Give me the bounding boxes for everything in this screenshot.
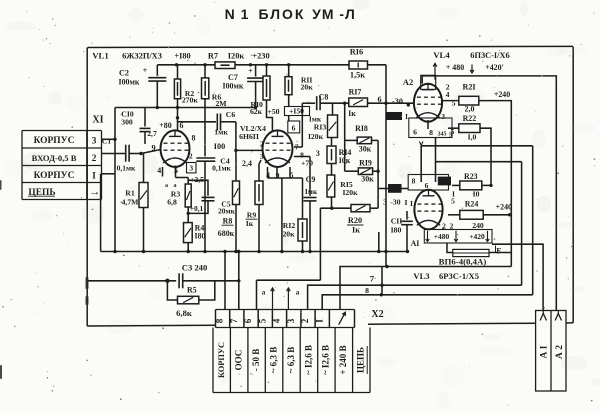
svg-text:4: 4 xyxy=(446,90,450,99)
svg-text:I00: I00 xyxy=(214,142,225,151)
svg-text:2: 2 xyxy=(260,140,264,149)
svg-text:20к: 20к xyxy=(301,83,314,92)
svg-text:а: а xyxy=(173,183,176,189)
svg-text:6,8: 6,8 xyxy=(167,198,177,207)
svg-text:ВП6-4(0,4А): ВП6-4(0,4А) xyxy=(439,257,487,267)
svg-text:БЛОК: БЛОК xyxy=(259,6,306,22)
svg-text:~ 6,3 В: ~ 6,3 В xyxy=(268,347,278,373)
svg-text:3: 3 xyxy=(92,136,97,146)
svg-text:+420': +420' xyxy=(485,63,504,72)
svg-text:I80: I80 xyxy=(391,226,402,235)
svg-text:~ 6,3 В: ~ 6,3 В xyxy=(286,347,296,373)
svg-text:СII: СII xyxy=(391,217,403,226)
svg-text:R24: R24 xyxy=(465,200,479,209)
svg-text:+ 240 В: + 240 В xyxy=(338,345,348,374)
svg-text:С8: С8 xyxy=(319,93,329,102)
svg-text:5: 5 xyxy=(451,128,455,136)
svg-text:А I: А I xyxy=(540,345,550,358)
svg-text:300: 300 xyxy=(121,118,133,127)
svg-text:I: I xyxy=(314,319,324,323)
svg-text:2,4: 2,4 xyxy=(242,159,252,168)
svg-text:7: 7 xyxy=(370,274,375,284)
svg-text:ЦЕПЬ: ЦЕПЬ xyxy=(356,347,366,373)
svg-text:I20к: I20к xyxy=(308,132,324,141)
svg-text:~ I2,6 В: ~ I2,6 В xyxy=(303,345,313,375)
svg-text:6: 6 xyxy=(180,121,184,130)
svg-text:240: 240 xyxy=(472,221,484,230)
svg-text:N 1: N 1 xyxy=(225,6,250,22)
svg-text:3: 3 xyxy=(286,318,296,323)
svg-text:+80: +80 xyxy=(159,121,171,130)
svg-text:I: I xyxy=(405,198,408,207)
svg-text:VL1: VL1 xyxy=(92,51,109,61)
svg-text:I,0: I,0 xyxy=(468,133,477,142)
svg-text:+480: +480 xyxy=(434,232,450,241)
svg-text:+: + xyxy=(248,67,253,76)
svg-text:5: 5 xyxy=(257,318,267,323)
svg-text:+: + xyxy=(143,66,148,75)
svg-text:RI6: RI6 xyxy=(350,48,363,57)
svg-text:62к: 62к xyxy=(250,107,263,116)
svg-text:I: I xyxy=(405,113,408,121)
svg-text:Iк: Iк xyxy=(348,109,356,118)
svg-text:RI8: RI8 xyxy=(355,124,368,133)
svg-text:30к: 30к xyxy=(361,175,374,184)
svg-text:6: 6 xyxy=(243,318,253,323)
svg-text:8: 8 xyxy=(429,128,433,137)
svg-text:1,5к: 1,5к xyxy=(350,71,365,80)
svg-text:I20к: I20к xyxy=(228,52,245,61)
svg-text:а: а xyxy=(165,183,168,189)
svg-text:+2,5: +2,5 xyxy=(190,175,204,184)
svg-text:С2: С2 xyxy=(119,69,129,78)
svg-text:R23: R23 xyxy=(464,172,478,181)
svg-text:680к: 680к xyxy=(218,229,235,238)
svg-text:I80: I80 xyxy=(195,232,206,241)
svg-text:а: а xyxy=(296,289,300,297)
svg-text:270к: 270к xyxy=(182,96,199,105)
svg-text:Iк: Iк xyxy=(246,219,254,228)
svg-text:ХI: ХI xyxy=(92,115,103,126)
svg-text:3: 3 xyxy=(260,152,264,161)
svg-text:8: 8 xyxy=(215,318,225,323)
svg-text:6: 6 xyxy=(292,123,296,132)
svg-text:I00мк: I00мк xyxy=(119,78,140,87)
svg-text:6Н6П: 6Н6П xyxy=(239,132,259,141)
svg-text:5: 5 xyxy=(451,197,455,206)
svg-text:КОРПУС: КОРПУС xyxy=(34,171,75,181)
svg-text:2М: 2М xyxy=(215,99,227,108)
svg-text:3: 3 xyxy=(316,149,320,158)
svg-text:6П3С-I/Х6: 6П3С-I/Х6 xyxy=(470,51,509,60)
svg-text:RI3: RI3 xyxy=(314,123,327,132)
svg-text:30к: 30к xyxy=(359,145,372,154)
svg-text:RI7: RI7 xyxy=(349,88,362,97)
svg-text:2,7: 2,7 xyxy=(147,129,157,138)
svg-text:УМ -Л: УМ -Л xyxy=(312,6,356,22)
svg-text:6: 6 xyxy=(413,128,417,137)
svg-text:-30: -30 xyxy=(390,198,400,207)
svg-text:20мк: 20мк xyxy=(218,207,236,216)
svg-text:8: 8 xyxy=(412,177,416,186)
svg-text:8: 8 xyxy=(365,286,369,295)
svg-text:КОРПУС: КОРПУС xyxy=(34,136,75,146)
svg-text:-30: -30 xyxy=(392,97,403,106)
svg-text:6: 6 xyxy=(377,95,381,104)
svg-text:Iмк: Iмк xyxy=(305,187,318,196)
svg-text:+0,1: +0,1 xyxy=(190,204,204,213)
svg-text:+420: +420 xyxy=(469,232,485,241)
svg-text:+I80: +I80 xyxy=(174,52,190,61)
svg-text:+240: +240 xyxy=(494,90,510,99)
svg-text:6,8к: 6,8к xyxy=(176,308,192,318)
svg-text:R5: R5 xyxy=(187,286,197,295)
svg-text:3: 3 xyxy=(383,198,387,207)
svg-text:2: 2 xyxy=(189,152,193,161)
svg-text:9: 9 xyxy=(151,144,155,153)
svg-text:С3 240: С3 240 xyxy=(182,263,208,273)
svg-text:VL4: VL4 xyxy=(433,50,450,60)
svg-text:6Р3С-1/Х5: 6Р3С-1/Х5 xyxy=(439,271,479,281)
svg-text:R8: R8 xyxy=(223,217,233,226)
svg-text:8: 8 xyxy=(192,134,196,143)
svg-text:ООС: ООС xyxy=(233,350,243,371)
svg-text:С1: С1 xyxy=(102,137,112,146)
svg-text:R20: R20 xyxy=(348,216,362,225)
svg-text:А2: А2 xyxy=(403,77,413,87)
svg-text:6Ж32П/Х3: 6Ж32П/Х3 xyxy=(122,52,162,61)
svg-text:I0: I0 xyxy=(473,190,480,199)
svg-text:С6: С6 xyxy=(226,110,236,119)
svg-text:+70: +70 xyxy=(301,158,313,167)
svg-text:А 2: А 2 xyxy=(555,345,565,359)
svg-text:7: 7 xyxy=(229,318,239,323)
svg-text:Iк: Iк xyxy=(352,226,360,235)
svg-text:а: а xyxy=(262,289,266,297)
svg-text:I: I xyxy=(92,171,96,181)
svg-text:F: F xyxy=(496,247,501,256)
svg-text:3: 3 xyxy=(189,163,193,172)
svg-text:+240: +240 xyxy=(496,203,512,212)
svg-text:2: 2 xyxy=(92,153,97,163)
svg-text:2: 2 xyxy=(300,318,310,323)
svg-text:0,1мк: 0,1мк xyxy=(212,164,231,173)
svg-text:+ 480: + 480 xyxy=(446,63,464,72)
svg-text:VL3: VL3 xyxy=(413,271,429,281)
svg-text:С9: С9 xyxy=(306,175,316,184)
svg-text:+50: +50 xyxy=(267,107,279,116)
svg-text:2,0: 2,0 xyxy=(465,105,475,114)
svg-text:АI: АI xyxy=(411,239,420,248)
svg-text:→: → xyxy=(89,186,101,198)
svg-text:4: 4 xyxy=(272,318,282,323)
svg-text:~ I2,6 В: ~ I2,6 В xyxy=(321,345,331,375)
svg-text:6: 6 xyxy=(425,181,429,190)
svg-text:RI9: RI9 xyxy=(359,159,372,168)
svg-text:I: I xyxy=(410,199,413,208)
svg-text:- 50 В: - 50 В xyxy=(251,349,261,372)
svg-text:I20к: I20к xyxy=(342,188,358,197)
svg-text:4: 4 xyxy=(157,166,161,175)
svg-text:345: 345 xyxy=(437,132,446,138)
svg-text:R7: R7 xyxy=(208,52,218,61)
